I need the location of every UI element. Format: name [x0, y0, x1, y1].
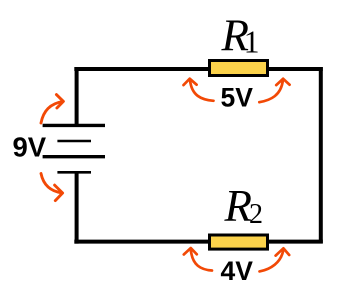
wire top segment [74, 67, 322, 71]
resistor R1 [210, 61, 268, 76]
battery B1 (9V source) [43, 125, 105, 172]
svg-text:1: 1 [244, 24, 260, 59]
voltage polarity arrow left of 4V (R2) [184, 248, 212, 271]
svg-text:R: R [224, 181, 253, 231]
wire left upper segment (top corner to battery + plate) [75, 67, 79, 126]
current direction arrow at battery (top, curving up-right) [41, 95, 63, 123]
voltage polarity arrow left of 5V (R1) [184, 79, 214, 101]
svg-text:2: 2 [249, 199, 263, 230]
voltage polarity arrow right of 4V (R2) [260, 248, 290, 271]
current direction arrow at battery (bottom, curving down-right) [41, 174, 63, 201]
voltage polarity arrow right of 5V (R1) [259, 79, 289, 103]
svg-text:5V: 5V [221, 82, 254, 112]
svg-text:4V: 4V [221, 256, 254, 286]
wire left lower segment (battery - plate to bottom corner) [75, 172, 79, 243]
wire right segment [319, 67, 323, 243]
svg-text:9V: 9V [13, 131, 47, 162]
resistor R2 [210, 235, 268, 249]
wire bottom segment [74, 240, 322, 244]
